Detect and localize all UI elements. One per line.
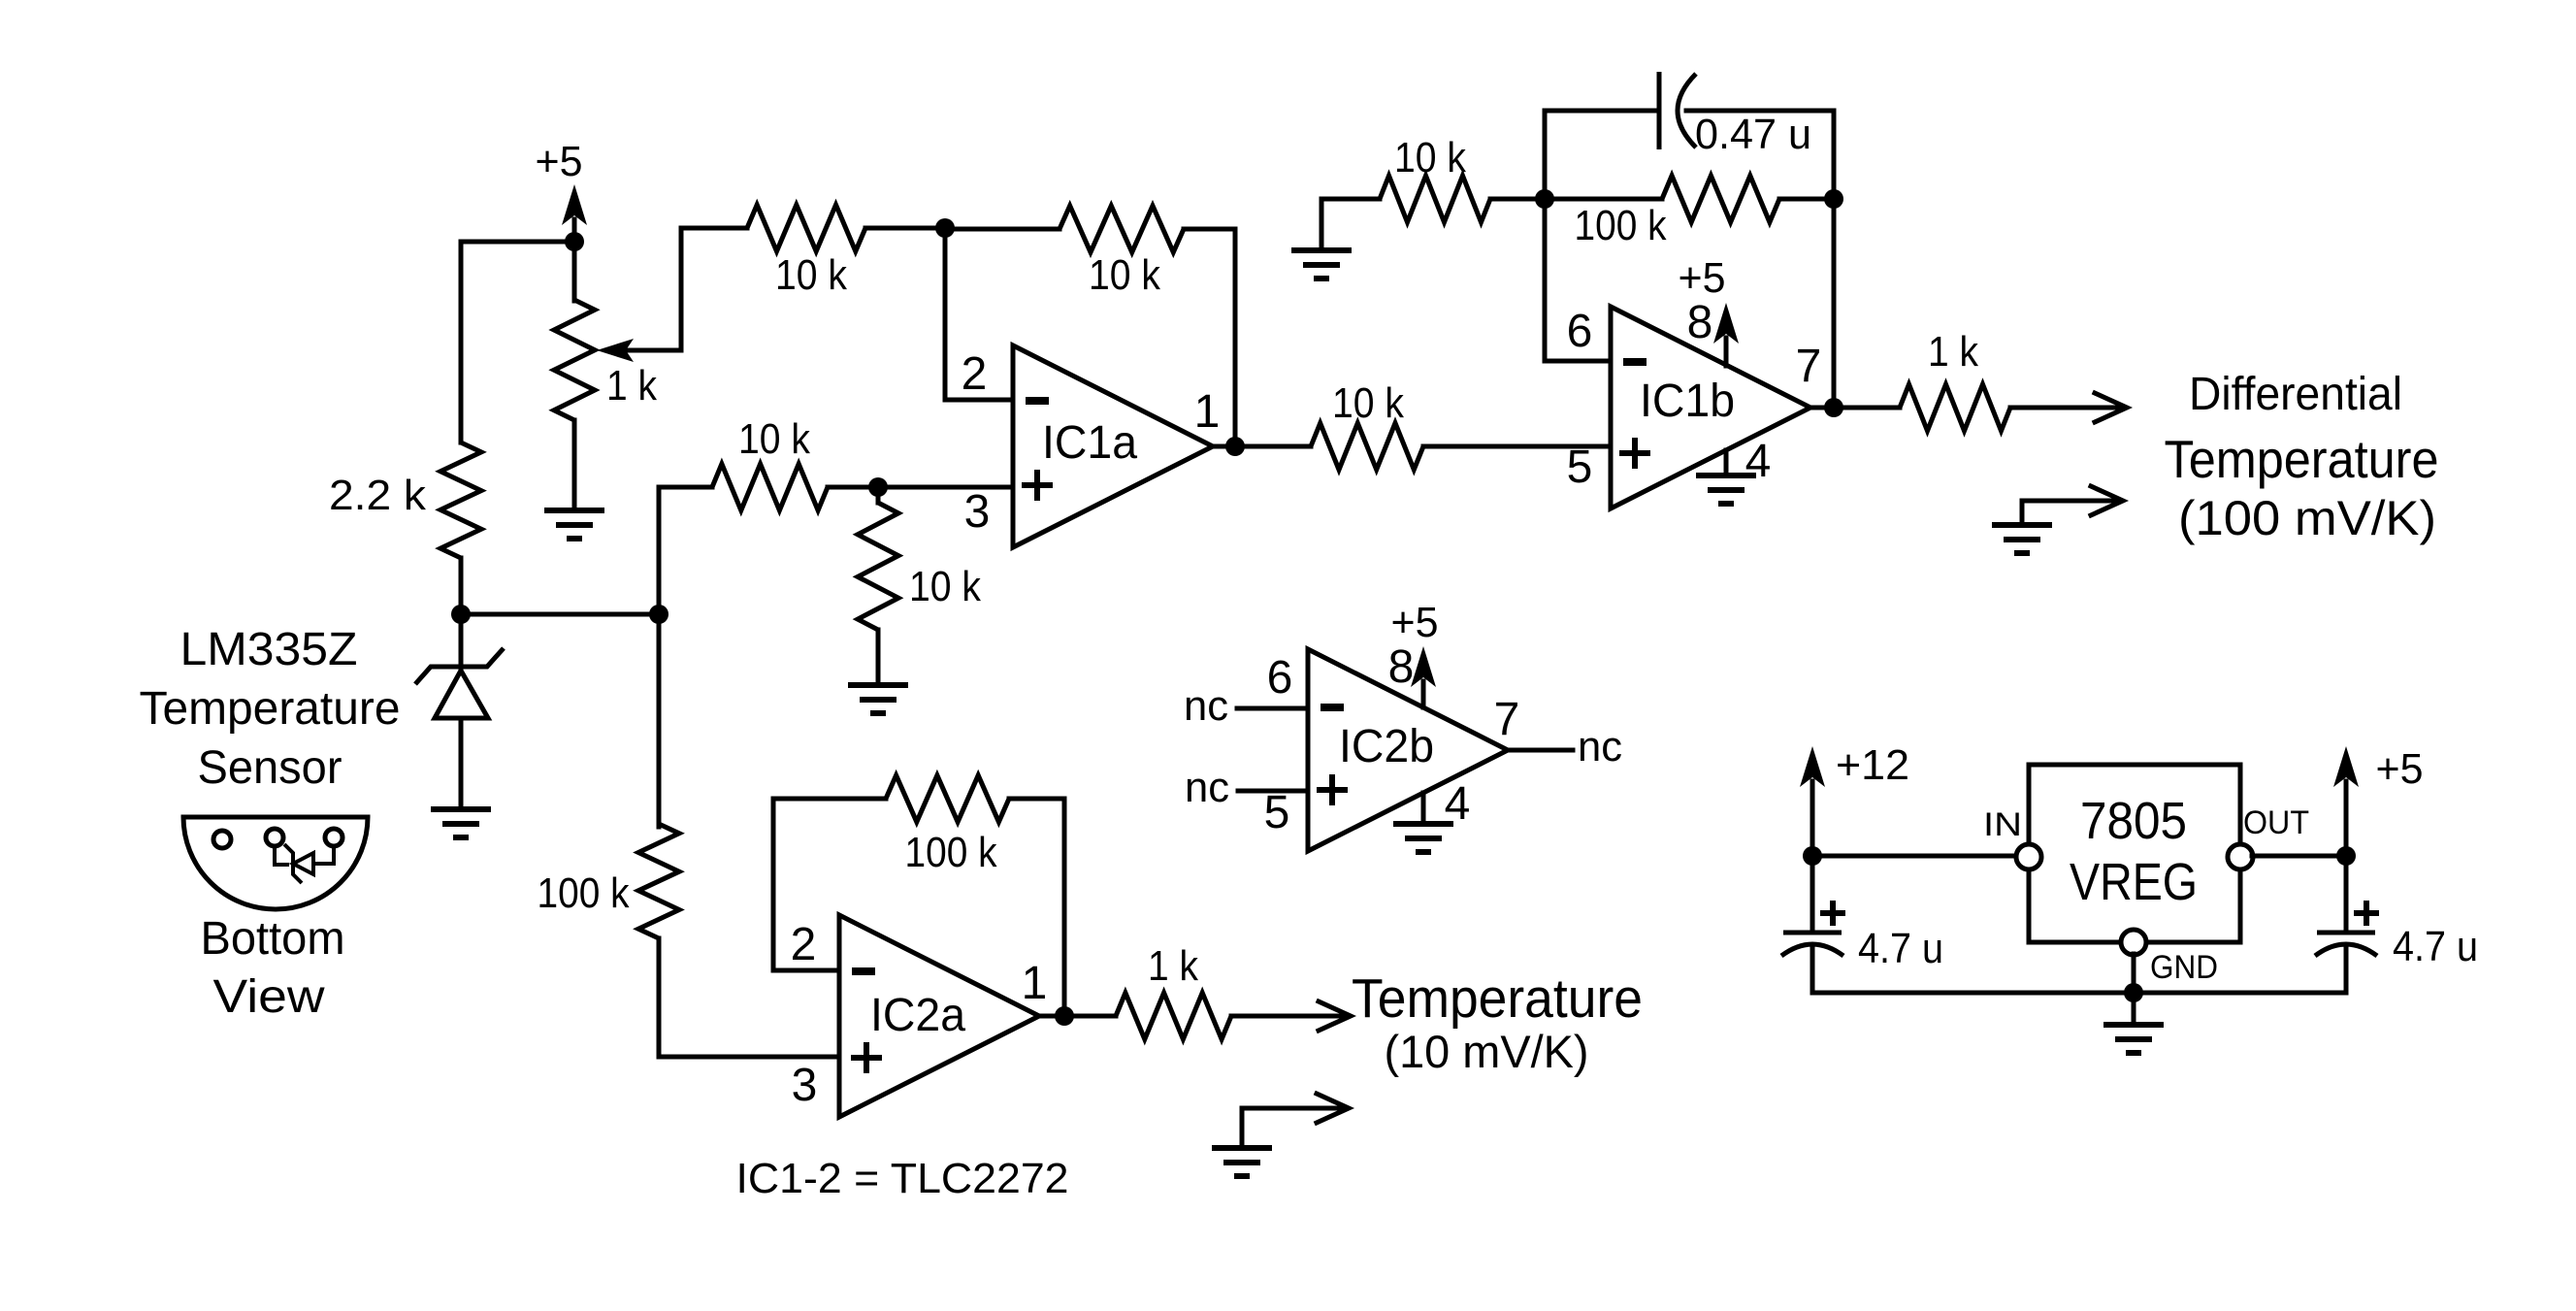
node A (+5 / pot / 2.2k junction) bbox=[565, 232, 584, 251]
label nc (pin 6) bbox=[1184, 682, 1228, 730]
node H bbox=[1824, 189, 1843, 209]
resistor 10 k (IC1a feedback) bbox=[1060, 206, 1184, 299]
pin label 7 bbox=[1796, 341, 1822, 392]
wire bbox=[459, 558, 464, 614]
resistor 100 k (IC2a feedback) bbox=[886, 775, 1009, 876]
wire bbox=[1039, 1014, 1116, 1019]
power +5 (IC1b pin 8) bbox=[1679, 254, 1740, 366]
arrow (ground reference) bbox=[1317, 1094, 1349, 1123]
svg-text:2: 2 bbox=[791, 919, 817, 970]
label OUT bbox=[2243, 804, 2309, 841]
capacitor C-in 4.7 u bbox=[1781, 856, 1943, 993]
svg-text:100 k: 100 k bbox=[905, 829, 998, 876]
capacitor 0.47 u bbox=[1659, 72, 1811, 158]
svg-text:10 k: 10 k bbox=[909, 563, 982, 610]
pin label 2 bbox=[791, 919, 817, 970]
svg-text:+5: +5 bbox=[2376, 745, 2424, 793]
label GND bbox=[2150, 949, 2218, 986]
resistor 10 k (pin 3 to ground) bbox=[858, 503, 982, 630]
svg-text:(10 mV/K): (10 mV/K) bbox=[1385, 1026, 1589, 1077]
capacitor C-out 4.7 u bbox=[2315, 856, 2478, 993]
LM335 package bottom view bbox=[183, 817, 368, 909]
wire bbox=[1779, 197, 1834, 202]
wire bbox=[572, 242, 577, 301]
svg-text:8: 8 bbox=[1388, 641, 1415, 693]
svg-text:4.7 u: 4.7 u bbox=[2393, 923, 2478, 970]
power +5 rail (left) bbox=[536, 138, 588, 242]
svg-text:4: 4 bbox=[1445, 778, 1471, 830]
wire bbox=[679, 228, 684, 350]
wire (ground reference) bbox=[1242, 1108, 1341, 1148]
svg-text:nc: nc bbox=[1185, 764, 1229, 811]
node E (pin 3 node) bbox=[868, 477, 888, 497]
label Temperature bbox=[1352, 967, 1643, 1030]
pin label 1 bbox=[1022, 958, 1048, 1009]
wire bbox=[1009, 797, 1064, 802]
wire (pin 6 route) bbox=[1543, 199, 1548, 361]
svg-text:Temperature: Temperature bbox=[1352, 967, 1643, 1030]
pin label 4 bbox=[1745, 436, 1772, 487]
svg-text:OUT: OUT bbox=[2243, 804, 2309, 841]
resistor 1 k (IC1b output) bbox=[1900, 328, 2010, 431]
svg-text:4.7 u: 4.7 u bbox=[1858, 925, 1943, 972]
wire bbox=[1490, 197, 1545, 202]
label nc (pin 7) bbox=[1578, 723, 1622, 770]
wire (pin 6) bbox=[1545, 359, 1611, 364]
svg-text:10 k: 10 k bbox=[775, 251, 848, 299]
svg-text:0.47 u: 0.47 u bbox=[1695, 111, 1811, 158]
wire bbox=[1832, 199, 1837, 408]
op-amp IC2a bbox=[839, 915, 1039, 1117]
svg-text:IC1b: IC1b bbox=[1640, 376, 1735, 427]
label Differential bbox=[2189, 369, 2402, 420]
wire bbox=[943, 228, 948, 400]
label nc (pin 5) bbox=[1185, 764, 1229, 811]
svg-text:+5: +5 bbox=[1679, 254, 1726, 302]
wire bbox=[459, 718, 464, 809]
wire (pin 3) bbox=[659, 1055, 839, 1060]
svg-text:5: 5 bbox=[1264, 787, 1290, 838]
pin label 5 bbox=[1264, 787, 1290, 838]
power +5 (IC2b pin 8) bbox=[1391, 599, 1439, 707]
wire (pin 6) bbox=[1237, 706, 1308, 711]
node D (IC1a inverting feedback node) bbox=[935, 218, 955, 238]
label Temperature bbox=[2165, 429, 2439, 489]
node M (+5 out node) bbox=[2336, 846, 2356, 866]
ground (IC2b pin 4) bbox=[1393, 793, 1453, 852]
pin label 6 bbox=[1567, 306, 1593, 357]
op-amp IC1a bbox=[1013, 345, 1213, 547]
pin label 6 bbox=[1267, 652, 1293, 704]
svg-text:Temperature: Temperature bbox=[140, 683, 401, 735]
wire bbox=[1686, 109, 1834, 114]
wire bbox=[657, 487, 662, 614]
label Bottom bbox=[201, 913, 345, 965]
op-amp IC2b bbox=[1308, 649, 1508, 851]
resistor 100 k (IC1b feedback) bbox=[1575, 176, 1780, 249]
wire bbox=[1213, 444, 1311, 449]
ground (7805) bbox=[2103, 993, 2164, 1053]
wire bbox=[773, 797, 886, 802]
power +12 rail bbox=[1800, 741, 1909, 856]
svg-text:1 k: 1 k bbox=[1148, 942, 1199, 990]
svg-text:IC2b: IC2b bbox=[1339, 721, 1434, 772]
svg-text:3: 3 bbox=[964, 486, 991, 538]
pin label 1 bbox=[1194, 386, 1221, 438]
svg-text:100 k: 100 k bbox=[1575, 202, 1668, 249]
wire bbox=[1812, 854, 2017, 859]
wire bbox=[572, 420, 577, 510]
svg-text:IC1-2 = TLC2272: IC1-2 = TLC2272 bbox=[736, 1155, 1069, 1202]
arrow (ground reference) bbox=[2091, 486, 2123, 515]
wire bbox=[459, 242, 464, 442]
wire bbox=[659, 485, 712, 490]
node I (IC1b output) bbox=[1824, 398, 1843, 417]
wire (pin 5) bbox=[1423, 444, 1611, 449]
svg-text:1: 1 bbox=[1022, 958, 1048, 1009]
wire bbox=[1233, 229, 1238, 446]
svg-text:4: 4 bbox=[1745, 436, 1772, 487]
svg-text:IC2a: IC2a bbox=[870, 990, 965, 1041]
resistor 100 k (IC2a input) bbox=[538, 824, 680, 938]
svg-text:Bottom: Bottom bbox=[201, 913, 345, 965]
wire (bottom rail) bbox=[1812, 991, 2346, 996]
wire bbox=[876, 487, 881, 503]
svg-text:IC1a: IC1a bbox=[1042, 417, 1137, 469]
wire (pin 5) bbox=[1238, 789, 1308, 794]
svg-text:GND: GND bbox=[2150, 949, 2218, 986]
svg-text:1 k: 1 k bbox=[606, 362, 658, 410]
svg-text:+12: +12 bbox=[1836, 741, 1909, 789]
label Temperature bbox=[140, 683, 401, 735]
svg-text:Temperature: Temperature bbox=[2165, 429, 2439, 489]
svg-text:View: View bbox=[213, 971, 325, 1023]
ground (IC1b pin 4) bbox=[1696, 450, 1756, 504]
wire bbox=[1321, 197, 1380, 202]
potentiometer 1 k bbox=[554, 300, 658, 420]
svg-text:10 k: 10 k bbox=[738, 415, 811, 463]
svg-text:6: 6 bbox=[1267, 652, 1293, 704]
pin label 5 bbox=[1567, 442, 1593, 493]
wire bbox=[681, 226, 747, 231]
wire (GND pin) bbox=[2132, 954, 2136, 993]
resistor 2.2 k bbox=[329, 442, 481, 558]
label (10 mV/K) bbox=[1385, 1026, 1589, 1077]
wire (pin 3) bbox=[828, 485, 1013, 490]
svg-text:VREG: VREG bbox=[2070, 853, 2198, 911]
resistor 10 k (ground to IC1b pin 6) bbox=[1380, 134, 1490, 222]
svg-text:Sensor: Sensor bbox=[198, 742, 342, 794]
svg-text:7: 7 bbox=[1494, 694, 1520, 745]
ground (pin 3 resistor) bbox=[848, 630, 908, 713]
wire bbox=[1062, 799, 1067, 1016]
svg-text:5: 5 bbox=[1567, 442, 1593, 493]
pin label 8 bbox=[1388, 641, 1415, 693]
wire bbox=[865, 226, 945, 231]
resistor 10 k (IC1a out to IC1b pin 5) bbox=[1311, 379, 1423, 470]
wire bbox=[1184, 227, 1235, 232]
wire bbox=[2252, 854, 2346, 859]
ground (temp output reference) bbox=[1212, 1148, 1272, 1176]
ground (10 k input) bbox=[1291, 199, 1352, 279]
label (100 mV/K) bbox=[2178, 491, 2436, 545]
svg-text:+5: +5 bbox=[536, 138, 583, 185]
resistor 10 k (to IC1a pin 3) bbox=[712, 415, 828, 510]
wire bbox=[461, 240, 574, 245]
svg-text:6: 6 bbox=[1567, 306, 1593, 357]
wire bbox=[461, 612, 659, 617]
node L (ground node) bbox=[2124, 983, 2143, 1002]
zener diode D1 LM335 sensor symbol bbox=[415, 648, 504, 718]
svg-text:2.2 k: 2.2 k bbox=[329, 472, 427, 519]
node G (IC1b inverting node) bbox=[1535, 189, 1554, 209]
wire bbox=[657, 614, 662, 827]
svg-text:nc: nc bbox=[1184, 682, 1228, 730]
svg-text:LM335Z: LM335Z bbox=[180, 624, 358, 675]
svg-text:10 k: 10 k bbox=[1394, 134, 1467, 181]
wire (pin 2) bbox=[773, 968, 839, 973]
svg-text:Differential: Differential bbox=[2189, 369, 2402, 420]
ground (sensor) bbox=[431, 809, 491, 837]
svg-text:+5: +5 bbox=[1391, 599, 1439, 646]
svg-text:nc: nc bbox=[1578, 723, 1622, 770]
label View bbox=[213, 971, 325, 1023]
wire (ground reference) bbox=[2022, 501, 2117, 525]
pot wiper arrow bbox=[597, 339, 681, 362]
wire (output) bbox=[1508, 748, 1573, 753]
svg-text:IN: IN bbox=[1983, 806, 2022, 843]
svg-text:7: 7 bbox=[1796, 341, 1822, 392]
wire bbox=[2010, 406, 2121, 410]
arrow (Temperature output) bbox=[1319, 1001, 1351, 1031]
label LM335Z bbox=[180, 624, 358, 675]
ground (diff output reference) bbox=[1992, 525, 2052, 553]
wire bbox=[1832, 111, 1837, 199]
resistor 1 k (IC2a output) bbox=[1116, 942, 1231, 1039]
node K (+12 node) bbox=[1803, 846, 1822, 866]
wire bbox=[459, 614, 464, 669]
pin label 3 bbox=[792, 1060, 818, 1111]
node J (IC2a output) bbox=[1055, 1006, 1074, 1026]
voltage regulator U1 7805 VREG bbox=[2016, 765, 2253, 955]
pin label 4 bbox=[1445, 778, 1471, 830]
op-amp IC1b bbox=[1611, 307, 1810, 508]
pin label 8 bbox=[1687, 297, 1713, 348]
label IN bbox=[1983, 806, 2022, 843]
node B (sensor top) bbox=[451, 605, 471, 624]
wire bbox=[945, 227, 1060, 232]
ground (pot) bbox=[544, 510, 604, 539]
wire bbox=[1810, 406, 1900, 410]
resistor 10 k (pot wiper to inverting node) bbox=[747, 205, 865, 299]
svg-text:10 k: 10 k bbox=[1089, 251, 1161, 299]
node C bbox=[649, 605, 668, 624]
label Sensor bbox=[198, 742, 342, 794]
svg-text:100 k: 100 k bbox=[538, 869, 631, 917]
svg-text:1: 1 bbox=[1194, 386, 1221, 438]
wire bbox=[1231, 1014, 1343, 1019]
pin label 7 bbox=[1494, 694, 1520, 745]
wire (pin 2) bbox=[945, 398, 1013, 403]
svg-text:8: 8 bbox=[1687, 297, 1713, 348]
svg-text:(100 mV/K): (100 mV/K) bbox=[2178, 491, 2436, 545]
power +5 rail (out) bbox=[2333, 745, 2424, 856]
wire (pin 2 route) bbox=[771, 799, 776, 970]
svg-text:2: 2 bbox=[962, 348, 988, 400]
svg-text:1 k: 1 k bbox=[1928, 328, 1979, 376]
wire bbox=[1543, 111, 1548, 199]
label IC1-2 = TLC2272 bbox=[736, 1155, 1069, 1202]
wire bbox=[657, 938, 662, 1057]
pin label 2 bbox=[962, 348, 988, 400]
wire bbox=[1545, 197, 1662, 202]
node F (IC1a output) bbox=[1225, 437, 1245, 456]
svg-text:3: 3 bbox=[792, 1060, 818, 1111]
svg-text:7805: 7805 bbox=[2080, 792, 2187, 850]
pin label 3 bbox=[964, 486, 991, 538]
svg-text:10 k: 10 k bbox=[1332, 379, 1405, 427]
arrow (Differential Temperature output) bbox=[2095, 393, 2127, 422]
wire bbox=[1545, 109, 1659, 114]
